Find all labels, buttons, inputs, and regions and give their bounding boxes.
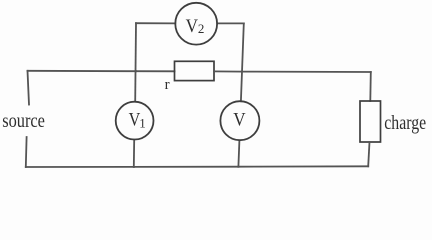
voltmeter V1 bbox=[116, 102, 154, 140]
wire right branch vertical (junction B to V) bbox=[241, 23, 244, 101]
svg-text:charge: charge bbox=[384, 111, 426, 133]
wire left branch vertical (junction A to V1) bbox=[134, 23, 137, 101]
wire left vertical upper bbox=[28, 71, 30, 105]
voltmeter V2 bbox=[175, 3, 217, 45]
resistor r bbox=[175, 61, 215, 80]
wire V2 left horizontal bbox=[136, 22, 175, 24]
wire top right segment bbox=[242, 71, 371, 73]
svg-text:r: r bbox=[165, 77, 170, 93]
wire top left segment bbox=[28, 70, 137, 72]
wire V1 to bottom bbox=[133, 140, 135, 167]
svg-text:2: 2 bbox=[198, 21, 205, 36]
wire bottom right segment bbox=[238, 165, 368, 167]
svg-text:V: V bbox=[233, 109, 245, 130]
wire bottom middle segment bbox=[134, 166, 239, 168]
wire right vertical upper bbox=[369, 72, 372, 101]
wire bottom left segment bbox=[26, 166, 134, 168]
wire right vertical lower bbox=[368, 142, 369, 166]
wire top middle segment to r bbox=[136, 70, 175, 72]
svg-text:1: 1 bbox=[139, 116, 146, 131]
svg-text:source: source bbox=[2, 109, 45, 131]
svg-text:V: V bbox=[186, 15, 198, 36]
wire V to bottom bbox=[238, 140, 239, 166]
voltmeter V bbox=[220, 101, 259, 140]
wire top from r to junction B bbox=[214, 70, 242, 72]
wire V2 right horizontal bbox=[217, 22, 244, 24]
resistor charge bbox=[360, 101, 381, 142]
wire left vertical lower bbox=[25, 137, 28, 167]
